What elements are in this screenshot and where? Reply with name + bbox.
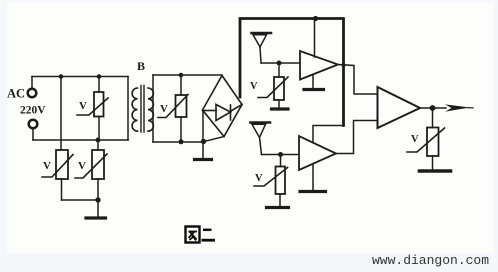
wire U2 power link bbox=[313, 126, 344, 143]
ground G5 (RV6) bbox=[267, 206, 289, 209]
varistor RV6 arrow bbox=[254, 168, 288, 187]
wire mid column x61 (L to lower varistor) bbox=[60, 77, 62, 151]
wire secondary bottom rail bbox=[153, 141, 204, 143]
wire U2 output to U3 lower input bbox=[336, 121, 378, 154]
varistor RV4 top stem bbox=[180, 75, 182, 95]
svg-text:V: V bbox=[43, 160, 51, 172]
label 图二 (figure caption, drawn strokes) bbox=[186, 227, 216, 243]
antenna/input symbol T1 triangle bbox=[253, 35, 267, 47]
node junction (432.5,108) bbox=[430, 105, 436, 111]
svg-text:V: V bbox=[79, 100, 87, 112]
varistor RV7 (output) body bbox=[427, 128, 439, 157]
node junction (98,200) bbox=[95, 197, 100, 202]
ground G7 (RV7) bbox=[420, 169, 451, 173]
wire output tail bbox=[468, 107, 473, 109]
varistor RV7 arrow bbox=[407, 128, 445, 152]
wire T1 stem bbox=[260, 47, 261, 63]
node junction (61,77) bbox=[59, 74, 64, 79]
wire bridge left vertex to ground bbox=[202, 110, 204, 158]
node junction on box top (315.5,18.5) bbox=[313, 16, 318, 21]
varistor RV3 arrow bbox=[75, 154, 107, 178]
wire bridge bottom vertex link bbox=[204, 137, 224, 142]
varistor RV2 (L-PE) body bbox=[56, 150, 68, 179]
ground G3 (RV5) bbox=[272, 107, 289, 110]
varistor RV4 arrow bbox=[158, 95, 188, 118]
antenna/input symbol T1 bar bbox=[252, 32, 272, 35]
wire RV2 bottom stem bbox=[61, 179, 63, 200]
node junction (99,77) bbox=[97, 74, 102, 79]
ground G4 (U1) bbox=[304, 88, 324, 91]
wire secondary top rail bbox=[153, 74, 222, 76]
varistor RV7 top stem bbox=[432, 108, 434, 128]
node junction (280.5,154.5) bbox=[278, 152, 283, 157]
wire DC+ supply rail (thick highlight box) bbox=[240, 19, 344, 126]
svg-text:AC: AC bbox=[7, 87, 25, 101]
svg-text:V: V bbox=[250, 81, 258, 92]
ground G6 (U2) bbox=[300, 190, 326, 193]
varistor RV2 arrow bbox=[42, 155, 73, 178]
varistor RV1 bottom stem bbox=[98, 117, 100, 141]
wire T2 stem bbox=[260, 138, 262, 155]
svg-text:B: B bbox=[137, 59, 145, 73]
node junction (181,75) bbox=[179, 73, 184, 78]
svg-text:V: V bbox=[160, 103, 168, 115]
varistor RV5 arrow bbox=[258, 77, 288, 98]
transformer B secondary winding bbox=[148, 88, 153, 131]
wire RV2-RV3 bottom link bbox=[62, 199, 99, 201]
node junction (98,140) bbox=[96, 138, 101, 143]
wire RV3 top stem bbox=[97, 140, 99, 150]
antenna/input symbol T2 bar bbox=[251, 121, 271, 124]
ground G1 bbox=[86, 216, 106, 219]
ground G2 (bridge) bbox=[195, 158, 212, 161]
svg-text:220V: 220V bbox=[20, 105, 46, 117]
wire bottom rail left (N) bbox=[33, 139, 128, 141]
node crossing dot on box edge (343.5,65) bbox=[342, 63, 346, 67]
bridge rectifier D1 internal diode bbox=[203, 105, 243, 121]
varistor RV7 bottom stem bbox=[432, 156, 434, 169]
wire U3 output bbox=[420, 107, 446, 109]
varistor RV3 (N-PE) body bbox=[92, 150, 104, 179]
varistor RV4 (secondary) body bbox=[176, 95, 187, 117]
wire U1 ground stem bbox=[312, 75, 314, 89]
varistor RV4 bottom stem bbox=[180, 117, 182, 142]
varistor RV5 bottom stem bbox=[278, 100, 280, 108]
antenna/input symbol T2 triangle bbox=[252, 124, 266, 137]
terminal N (220V) bbox=[29, 120, 38, 129]
varistor RV5 body bbox=[274, 77, 284, 100]
terminal AC (L) bbox=[28, 89, 37, 98]
wire N terminal stem bbox=[32, 129, 34, 141]
svg-text:www.diangon.com: www.diangon.com bbox=[372, 253, 489, 268]
varistor RV6 body bbox=[276, 167, 286, 195]
svg-text:V: V bbox=[78, 160, 86, 172]
wire top rail left (L phase) bbox=[32, 76, 128, 78]
bridge rectifier D1 outline bbox=[203, 76, 243, 137]
op-amp U2 bbox=[299, 136, 336, 170]
svg-text:V: V bbox=[255, 173, 263, 184]
transformer B secondary vertical wire bbox=[152, 75, 154, 142]
node junction (181,141.8) bbox=[179, 139, 184, 144]
varistor RV6 top stem bbox=[280, 155, 282, 167]
wire RV3 bottom stem to ground bbox=[97, 179, 99, 217]
varistor RV1 arrow bbox=[77, 98, 108, 115]
node junction (279,63) bbox=[277, 61, 282, 66]
wire U2 input bbox=[262, 154, 300, 156]
transformer B primary vertical wire bbox=[127, 77, 129, 141]
output arrow head bbox=[445, 104, 470, 111]
varistor RV1 (L-N) body bbox=[94, 92, 104, 117]
varistor RV5 top stem bbox=[278, 63, 280, 77]
varistor RV6 bottom stem bbox=[279, 194, 281, 206]
wire AC terminal stem bbox=[31, 77, 33, 89]
svg-text:V: V bbox=[411, 134, 419, 145]
op-amp U3 bbox=[378, 87, 421, 128]
varistor RV1 top stem bbox=[98, 77, 100, 93]
transformer B core bbox=[141, 86, 144, 133]
op-amp U1 bbox=[300, 51, 338, 80]
node junction (203.5,141.5) bbox=[201, 139, 206, 144]
wire U2 ground stem bbox=[312, 164, 314, 190]
transformer B primary winding bbox=[132, 88, 137, 131]
wire U1 input bbox=[261, 62, 300, 64]
wire U1 power stem bbox=[314, 19, 316, 57]
wire U1 output to U3 upper input bbox=[338, 65, 378, 95]
